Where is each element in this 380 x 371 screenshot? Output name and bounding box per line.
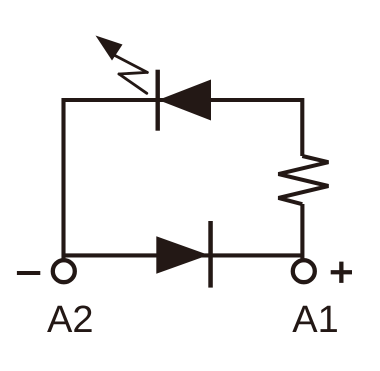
LED cathode bar [156,70,160,131]
diode cathode bar [208,221,213,288]
polarity label minus [17,271,40,275]
LED triangle (cathode at left bar) [158,80,211,121]
terminal A1 circle [293,260,315,282]
diode triangle (bottom branch, pointing right) [156,236,208,273]
LED light-emission arrow head [96,36,123,61]
LED light-emission arrow shaft (zigzag) [114,55,148,94]
resistor [278,156,328,204]
wire: bottom horizontal (diode branch) [64,253,303,257]
wire: right vertical upper (top wire to resistor) [300,98,304,156]
wire: right vertical lower (resistor to A1 terminal) [300,204,304,260]
wire: top horizontal (LED branch) [64,98,303,102]
polarity label plus [331,262,352,283]
svg-text:A1: A1 [292,299,338,341]
svg-text:A2: A2 [47,299,93,341]
wire: left vertical (A2 side) [61,98,65,260]
terminal A2 circle [53,260,75,282]
